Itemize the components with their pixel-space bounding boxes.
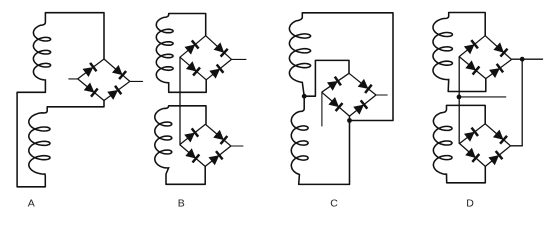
- wire D: BR-D1 left vertex down to BR-D2 left vertex: [458, 57, 460, 144]
- diode BR-B1b (top to right): [206, 36, 232, 60]
- diode BR-D2b (top to right): [485, 124, 510, 146]
- wire C: BR-C bottom vertex to node: [349, 116, 351, 120]
- output stub B2 plus (right vertex): [231, 145, 243, 147]
- transformer winding L7 (option D, upper, 3 turns): [433, 13, 452, 92]
- diode BR-Ad (bottom to right): [104, 81, 130, 100]
- transformer winding L8 (option D, lower, 3 turns): [433, 105, 452, 182]
- wire D: winding L7 top to BR-D1 top vertex: [449, 13, 486, 36]
- diode bridge BR-D2: diode BR-D2a (left to top): [460, 124, 486, 144]
- diode BR-B1c (left to bottom): [180, 57, 206, 80]
- transformer winding L2 (option A, lower, 3 turns): [29, 107, 50, 176]
- diode bridge BR-D1: diode BR-D1a (left to top): [459, 36, 485, 57]
- diode BR-D2d (bottom to right): [485, 146, 510, 167]
- junction node CT (center tap of option C windings): [302, 94, 307, 99]
- diode BR-D1c (left to bottom): [459, 57, 486, 79]
- wire D: BR-D1 bottom vertex to L7 bottom lead: [448, 79, 486, 92]
- diode BR-B1d (bottom to right): [206, 59, 231, 79]
- wire A: bridge BR-A bottom vertex to L2 top lead: [47, 101, 104, 107]
- junction node on D left branch: [457, 95, 462, 100]
- diode BR-D1b (top to right): [485, 36, 511, 60]
- output stub B1 plus (right vertex): [232, 58, 247, 60]
- wire B: winding L3 top to bridge BR-B1 top vertex: [169, 14, 206, 36]
- diode BR-D2c (left to bottom): [460, 144, 486, 167]
- junction node at BR-C bottom vertex: [347, 118, 352, 123]
- transformer winding L1 (option A, upper, 3 turns): [33, 13, 50, 93]
- output stub A minus (left vertex): [69, 78, 78, 80]
- diode BR-B2b (top to right): [205, 124, 231, 146]
- transformer winding L4 (option B, lower, 3 turns): [155, 106, 172, 185]
- wire B: BR-B2 bottom vertex to L4 bottom lead: [166, 166, 205, 184]
- wire D: BR-D2 bottom vertex to L8 bottom lead: [447, 166, 486, 182]
- wire B: BR-B1 bottom vertex to L3 bottom lead: [169, 80, 207, 93]
- diode BR-Cd (bottom to right): [350, 95, 377, 116]
- output stub D1 plus (right vertex, through node, free end): [512, 58, 543, 60]
- svg-text:A: A: [28, 197, 35, 209]
- transformer winding L3 (option B, upper, 4 turns): [156, 14, 173, 93]
- diode BR-Ab (top to right): [104, 59, 130, 81]
- diode BR-B2c (left to bottom): [180, 145, 206, 167]
- wire A: winding L1 top to bridge BR-A top vertex: [45, 13, 104, 59]
- diode BR-Cb (top to right): [349, 73, 376, 95]
- svg-text:B: B: [178, 198, 185, 210]
- diode BR-Ac (left to bottom): [78, 79, 104, 101]
- wire B: winding L4 top wire to BR-B2 top vertex: [169, 106, 206, 125]
- transformer winding L5 (option C, upper, 3 turns): [289, 13, 310, 96]
- diode BR-D1d (bottom to right): [486, 60, 512, 79]
- wire B: BR-B1 left vertex down to BR-B2 left vertex: [179, 57, 181, 144]
- wire A: L1 bottom lead, down left side to L2 bottom lead: [17, 92, 45, 187]
- diode bridge BR-B1: diode BR-B1a (left to top): [180, 36, 206, 58]
- output stub C minus (left vertex, downward): [321, 92, 323, 126]
- wire C: center tap to BR-C top vertex: [304, 60, 349, 96]
- svg-text:D: D: [466, 197, 474, 209]
- wire D: right rail from node down to BR-D2 right stub: [521, 59, 523, 146]
- diode bridge BR-A: diode BR-Aa (left to top): [78, 59, 104, 79]
- diode bridge BR-B2: diode BR-B2a (left to top): [180, 124, 206, 144]
- transformer winding L6 (option C, lower, 3 turns): [291, 96, 308, 184]
- wire D: BR-D2 right vertex to rail: [511, 145, 523, 147]
- diode BR-Cc (left to bottom): [322, 92, 350, 116]
- output stub D minus (from node to free end): [459, 96, 506, 98]
- wire D: winding L8 top wire to BR-D2 top vertex: [447, 105, 486, 123]
- wire C: L6 bottom to BR-C bottom node: [299, 121, 350, 185]
- output stub A plus (right vertex): [130, 80, 143, 82]
- svg-text:C: C: [330, 198, 338, 210]
- wire C: winding L5 top, across top and down right side to bottom node: [302, 13, 393, 121]
- junction node at D right rail top: [520, 57, 525, 62]
- diode BR-B2d (bottom to right): [205, 146, 231, 166]
- diode bridge BR-C: diode BR-Ca (left to top): [322, 73, 349, 92]
- output stub C plus (right vertex): [376, 94, 387, 96]
